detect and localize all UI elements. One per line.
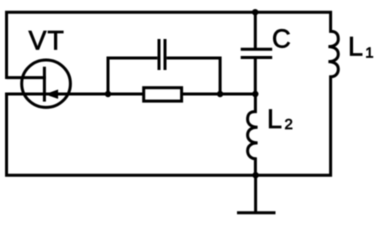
svg-text:L: L [348,32,363,62]
svg-text:C: C [272,24,291,54]
svg-text:1: 1 [365,44,373,61]
svg-text:L: L [267,104,282,134]
svg-text:VT: VT [29,25,65,55]
svg-text:2: 2 [285,116,293,133]
